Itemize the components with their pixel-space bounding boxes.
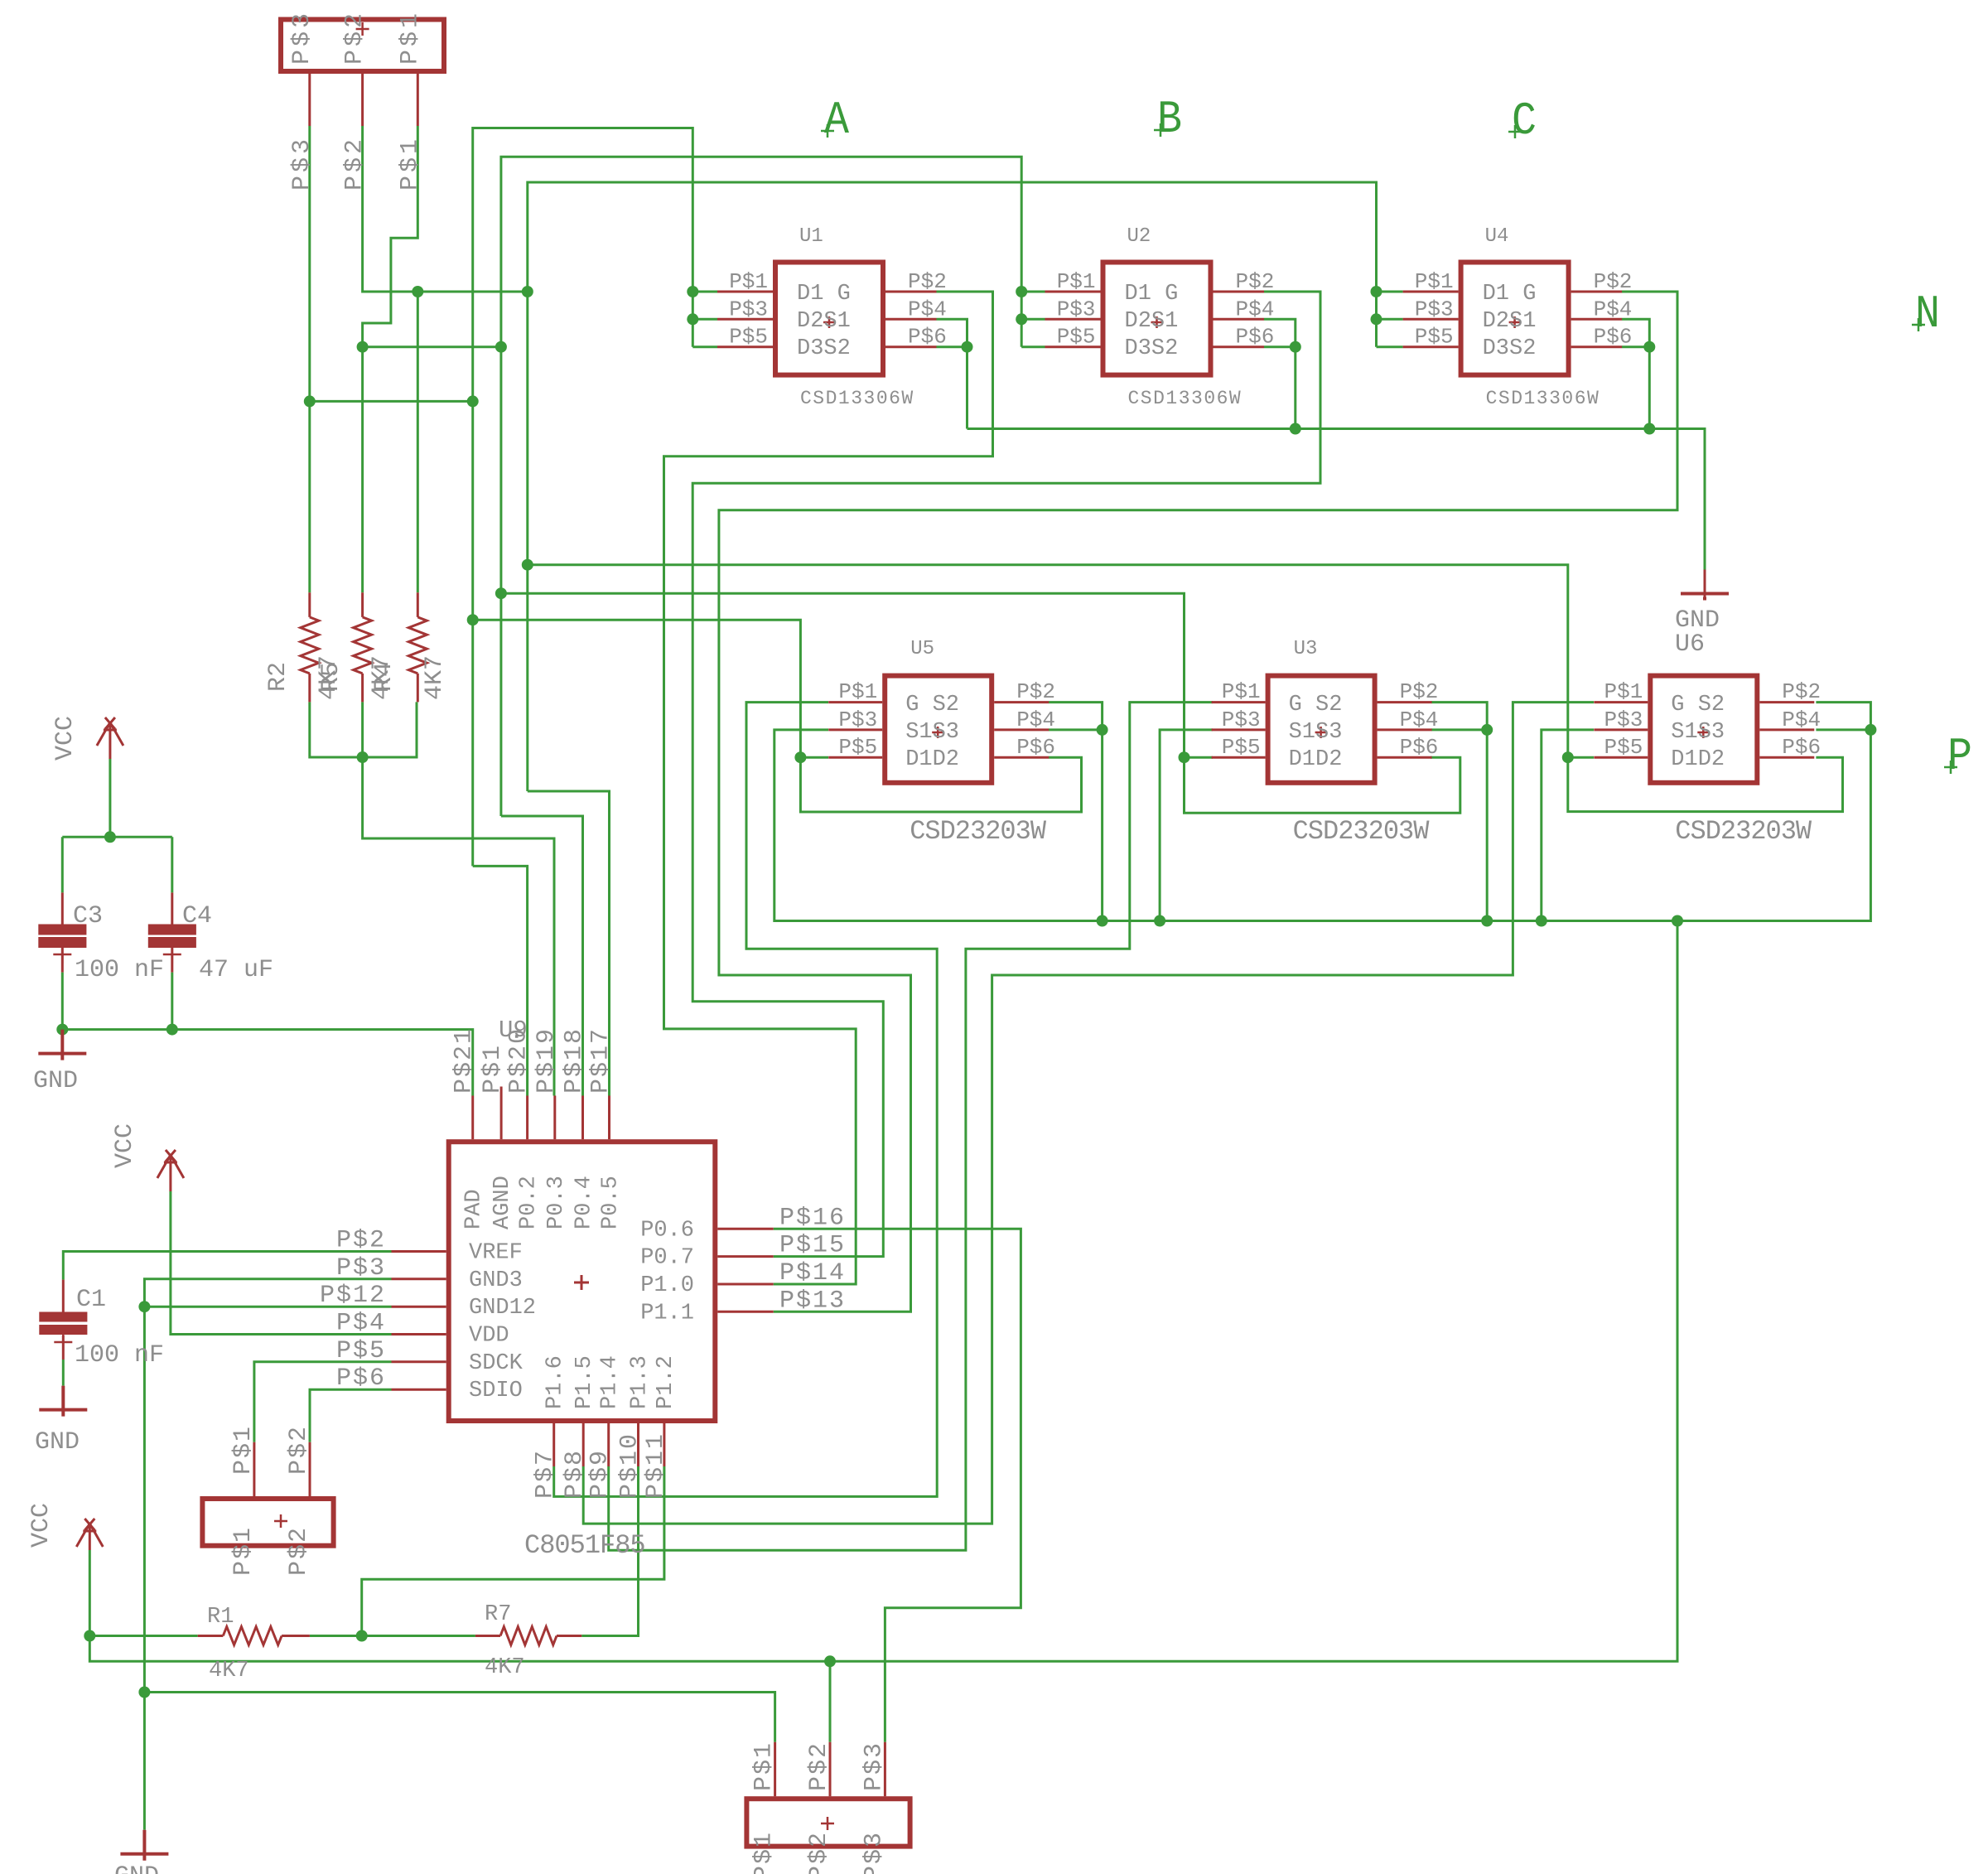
wire net C jog to U9 P$17 xyxy=(528,791,610,1096)
wire GND3 GND12 down xyxy=(144,1279,391,1830)
node xyxy=(1481,724,1493,736)
wire U1 gate to U9 P$14 xyxy=(664,292,993,1284)
node xyxy=(1672,915,1683,927)
svg-text:A: A xyxy=(824,94,849,147)
node xyxy=(794,751,806,763)
wire U7 P$4 link xyxy=(1816,728,1870,731)
node xyxy=(522,559,533,571)
transistor U3 CSD23203W xyxy=(1268,676,1375,783)
node xyxy=(138,1687,150,1698)
ground symbol U6 xyxy=(1704,570,1706,597)
svg-text:VCC: VCC xyxy=(111,1123,139,1168)
node xyxy=(357,751,369,763)
wire net A bus vertical and U1 left xyxy=(473,128,693,867)
power VCC symbol (VCC2 mid-left) xyxy=(157,1150,184,1191)
svg-text:P$14: P$14 xyxy=(779,1259,846,1287)
svg-text:P$1: P$1 xyxy=(750,1831,779,1874)
microcontroller U9 C8051F85 xyxy=(449,1142,716,1421)
power VCC symbol (VCC3 bottom-left) xyxy=(76,1519,103,1550)
transistor U7 CSD23203W xyxy=(1650,676,1757,783)
node xyxy=(1016,286,1027,297)
svg-text:P1.6: P1.6 xyxy=(543,1355,568,1409)
svg-text:P0.3: P0.3 xyxy=(544,1176,569,1229)
svg-text:P1.1: P1.1 xyxy=(640,1301,694,1326)
node xyxy=(56,1024,68,1036)
svg-text:GND: GND xyxy=(114,1862,159,1874)
connector JP1 (3-pin, top) xyxy=(281,20,444,72)
svg-text:P$5: P$5 xyxy=(336,1337,386,1365)
wire U3 S1 to rail xyxy=(1160,730,1213,921)
node xyxy=(687,313,698,325)
wire U4 source pins xyxy=(1622,319,1649,428)
svg-text:P$6: P$6 xyxy=(1594,325,1633,350)
svg-text:P0.7: P0.7 xyxy=(640,1246,694,1271)
wire U5 P$5 link xyxy=(800,756,828,759)
svg-text:CSD13306W: CSD13306W xyxy=(800,388,914,409)
svg-text:4K7: 4K7 xyxy=(421,655,449,700)
node xyxy=(1643,341,1655,353)
svg-text:100 nF: 100 nF xyxy=(75,1341,164,1369)
svg-text:P$1: P$1 xyxy=(479,1044,507,1094)
node xyxy=(495,587,507,599)
node xyxy=(1643,423,1655,435)
wire U7 P$5 link xyxy=(1568,756,1594,759)
svg-text:GND: GND xyxy=(33,1067,78,1095)
svg-text:AGND: AGND xyxy=(490,1176,515,1229)
svg-text:D3S2: D3S2 xyxy=(797,336,851,361)
svg-text:P$8: P$8 xyxy=(561,1449,589,1499)
svg-text:D2S1: D2S1 xyxy=(1483,309,1537,334)
svg-text:P$2: P$2 xyxy=(1236,269,1275,294)
transistor U5 CSD23203W xyxy=(885,676,992,783)
svg-text:P$6: P$6 xyxy=(336,1364,386,1393)
svg-text:CSD23203W: CSD23203W xyxy=(1675,816,1812,847)
svg-text:VCC: VCC xyxy=(27,1503,55,1548)
svg-text:P0.4: P0.4 xyxy=(572,1176,597,1229)
node xyxy=(522,286,533,297)
svg-text:B: B xyxy=(1157,93,1182,146)
wire net A link to bus xyxy=(310,400,473,403)
wire net C branch to U7 drains xyxy=(528,565,1843,812)
svg-text:R4: R4 xyxy=(370,662,398,692)
svg-text:P1.5: P1.5 xyxy=(572,1355,597,1409)
resistor R7 4K7 xyxy=(475,1635,581,1637)
svg-text:N: N xyxy=(1915,287,1940,341)
svg-text:47 uF: 47 uF xyxy=(199,956,273,984)
resistor R2 4K7 xyxy=(308,592,311,702)
node xyxy=(166,1024,178,1036)
wire U5 source pins to rail xyxy=(1049,703,1103,921)
svg-text:P$3: P$3 xyxy=(860,1831,888,1874)
svg-text:VREF: VREF xyxy=(469,1241,523,1266)
svg-text:C1: C1 xyxy=(76,1286,106,1314)
wire VCC to R1 xyxy=(89,1635,197,1637)
node xyxy=(962,341,973,353)
wire VCC to connector P$2 xyxy=(829,1661,832,1742)
svg-text:D3S2: D3S2 xyxy=(1125,336,1179,361)
svg-text:D1 G: D1 G xyxy=(1483,282,1537,307)
svg-text:100 nF: 100 nF xyxy=(75,956,164,984)
svg-text:P$2: P$2 xyxy=(805,1831,833,1874)
wire net B branch to U3 drains xyxy=(501,593,1460,813)
wire SDCK to header xyxy=(254,1362,392,1442)
svg-text:D1D2: D1D2 xyxy=(1671,747,1725,772)
wire source rail to GND U6 xyxy=(967,429,1706,570)
svg-text:P$6: P$6 xyxy=(1782,735,1821,760)
wire U7 S1 to rail xyxy=(1542,730,1594,921)
wire net B jog to U9 P$18 xyxy=(501,816,583,1096)
svg-text:P$3: P$3 xyxy=(288,136,316,191)
resistor R5 4K7 xyxy=(361,592,364,702)
svg-text:R7: R7 xyxy=(485,1602,511,1627)
svg-text:4K7: 4K7 xyxy=(209,1659,249,1683)
resistor R4 4K7 xyxy=(417,592,419,702)
svg-text:P$21: P$21 xyxy=(451,1027,479,1094)
svg-text:P$3: P$3 xyxy=(860,1741,888,1791)
svg-text:P$4: P$4 xyxy=(1016,708,1055,732)
svg-text:P$2: P$2 xyxy=(285,1425,313,1475)
wire R net to U9 P$19 xyxy=(363,757,554,1096)
svg-text:P$9: P$9 xyxy=(586,1449,615,1499)
node xyxy=(1536,915,1547,927)
svg-text:P$5: P$5 xyxy=(1415,325,1454,350)
svg-text:U9: U9 xyxy=(499,1017,528,1044)
wire C3 C4 bottoms GND rail to U9 P$21 xyxy=(62,973,472,1096)
svg-text:VDD: VDD xyxy=(469,1324,509,1349)
wire net C: connector P$2 down and right xyxy=(363,126,528,292)
svg-text:4K7: 4K7 xyxy=(485,1655,525,1680)
wire U2 source pins xyxy=(1264,319,1296,428)
node xyxy=(1371,313,1382,325)
svg-text:P$2: P$2 xyxy=(908,269,947,294)
wire U5 gate to U9 P$7 xyxy=(554,703,937,1497)
node xyxy=(1016,313,1027,325)
svg-text:S1S3: S1S3 xyxy=(905,720,959,745)
svg-text:P0.2: P0.2 xyxy=(517,1176,542,1229)
svg-text:P$5: P$5 xyxy=(1222,735,1261,760)
wire U9 P$16 to connector P$3 xyxy=(774,1229,1021,1742)
svg-text:CSD23203W: CSD23203W xyxy=(910,816,1047,847)
wire U3 gate to U9 P$9 xyxy=(609,703,1213,1551)
svg-text:P$6: P$6 xyxy=(1016,735,1055,760)
node xyxy=(84,1630,95,1642)
svg-text:P: P xyxy=(1947,730,1972,783)
wire U4 gate to U9 P$13 xyxy=(719,292,1677,1311)
wire R7 to U9 P$10 xyxy=(581,1466,638,1636)
wire net B horizontal xyxy=(363,345,501,348)
ground symbol GND under C3 xyxy=(38,1030,86,1060)
svg-text:P$2: P$2 xyxy=(285,1526,313,1576)
svg-text:P$12: P$12 xyxy=(320,1282,386,1310)
svg-text:P$3: P$3 xyxy=(336,1254,386,1282)
wire net B: connector P$1 jog down xyxy=(363,126,418,347)
wire U3 source pins to rail xyxy=(1431,703,1487,921)
svg-text:GND12: GND12 xyxy=(469,1296,536,1321)
node xyxy=(1097,915,1108,927)
svg-text:P$7: P$7 xyxy=(532,1449,560,1499)
svg-text:P$3: P$3 xyxy=(1057,297,1096,321)
node xyxy=(467,614,479,625)
wire VCC rail bottom xyxy=(89,921,1677,1662)
wire VREF to C1 xyxy=(63,1252,391,1280)
wire net A jog to U9 P$20 xyxy=(473,866,528,1095)
wire U7 gate to U9 P$8 xyxy=(583,703,1594,1524)
svg-text:P$4: P$4 xyxy=(1236,297,1275,321)
node xyxy=(1481,915,1493,927)
wire GND to connector P$1 xyxy=(144,1693,774,1742)
svg-text:P1.0: P1.0 xyxy=(640,1273,694,1298)
svg-text:P$4: P$4 xyxy=(908,297,947,321)
svg-text:P$6: P$6 xyxy=(908,325,947,350)
svg-text:U3: U3 xyxy=(1294,638,1318,660)
svg-text:P1.3: P1.3 xyxy=(628,1355,653,1409)
capacitor C4 47 uF xyxy=(171,892,173,925)
svg-text:P$11: P$11 xyxy=(642,1432,670,1499)
svg-text:P$2: P$2 xyxy=(805,1741,833,1791)
svg-text:P$10: P$10 xyxy=(616,1432,644,1499)
svg-text:P$1: P$1 xyxy=(729,269,768,294)
svg-text:D1 G: D1 G xyxy=(1125,282,1179,307)
svg-text:P$3: P$3 xyxy=(1415,297,1454,321)
node xyxy=(412,286,423,297)
svg-text:G S2: G S2 xyxy=(1671,693,1725,717)
wire net A branch to U5 drains xyxy=(473,620,1082,812)
node xyxy=(1179,751,1190,763)
node xyxy=(1562,751,1574,763)
wire SDIO to header xyxy=(310,1389,392,1442)
svg-text:P$3: P$3 xyxy=(1222,708,1261,732)
svg-text:P$15: P$15 xyxy=(779,1232,846,1260)
svg-text:U1: U1 xyxy=(799,225,823,248)
svg-text:P$1: P$1 xyxy=(1222,679,1261,704)
svg-text:P$17: P$17 xyxy=(587,1027,615,1094)
svg-text:P$1: P$1 xyxy=(1415,269,1454,294)
wire U2 gate to U9 P$15 xyxy=(692,292,1320,1257)
transistor U2 CSD13306W xyxy=(1103,263,1211,375)
node xyxy=(1865,724,1876,736)
svg-text:P$2: P$2 xyxy=(1782,679,1821,704)
svg-text:D1D2: D1D2 xyxy=(1289,747,1343,772)
svg-text:S1S3: S1S3 xyxy=(1671,720,1725,745)
svg-text:P$2: P$2 xyxy=(1400,679,1439,704)
wire U3 P$5 link xyxy=(1185,756,1214,759)
wire U1 left pin links xyxy=(692,292,717,347)
svg-text:P1.2: P1.2 xyxy=(654,1355,678,1409)
node xyxy=(138,1301,150,1312)
svg-text:GND3: GND3 xyxy=(469,1268,523,1293)
svg-text:P$2: P$2 xyxy=(1016,679,1055,704)
svg-text:C4: C4 xyxy=(182,902,212,930)
svg-text:D3S2: D3S2 xyxy=(1483,336,1537,361)
power VCC symbol (VCC1 top-left) xyxy=(97,717,123,759)
svg-text:P$2: P$2 xyxy=(336,1227,386,1255)
svg-text:SDIO: SDIO xyxy=(469,1379,523,1403)
svg-text:P1.4: P1.4 xyxy=(598,1355,623,1409)
svg-text:U6: U6 xyxy=(1675,630,1705,659)
node xyxy=(824,1655,836,1667)
svg-text:P$1: P$1 xyxy=(396,136,424,191)
svg-text:P$1: P$1 xyxy=(750,1741,779,1791)
svg-text:P$13: P$13 xyxy=(779,1287,846,1315)
node xyxy=(1097,724,1108,736)
svg-text:R1: R1 xyxy=(207,1605,234,1630)
node xyxy=(104,831,116,843)
wire net C bus vertical and U4 left xyxy=(528,182,1377,791)
node xyxy=(687,286,698,297)
svg-text:P$4: P$4 xyxy=(1782,708,1821,732)
wire resistor bottoms join xyxy=(310,702,417,757)
wire net B bus vertical and U2 left xyxy=(501,157,1021,816)
svg-text:P$1: P$1 xyxy=(229,1425,258,1475)
transistor U1 CSD13306W xyxy=(775,263,883,375)
svg-text:P$6: P$6 xyxy=(1236,325,1275,350)
wire net C to R4 top xyxy=(417,292,419,592)
connector JP3 (3-pin, bottom) xyxy=(746,1799,910,1846)
svg-text:P$1: P$1 xyxy=(396,10,424,65)
svg-text:P$2: P$2 xyxy=(341,136,369,191)
svg-text:P$4: P$4 xyxy=(1594,297,1633,321)
node xyxy=(1371,286,1382,297)
svg-text:P$18: P$18 xyxy=(561,1027,589,1094)
node xyxy=(357,341,369,353)
wire net A: connector P$3 down to R2 xyxy=(308,126,311,592)
svg-text:P$3: P$3 xyxy=(288,10,316,65)
svg-text:P$3: P$3 xyxy=(729,297,768,321)
node xyxy=(495,341,507,353)
svg-text:D2S1: D2S1 xyxy=(797,309,851,334)
svg-text:CSD13306W: CSD13306W xyxy=(1128,388,1242,409)
svg-text:P$4: P$4 xyxy=(336,1310,386,1338)
svg-text:R2: R2 xyxy=(264,662,292,692)
svg-text:P0.5: P0.5 xyxy=(599,1176,624,1229)
svg-text:P$5: P$5 xyxy=(1057,325,1096,350)
wire R junction to U9 P$11 xyxy=(362,1466,664,1636)
svg-text:P0.6: P0.6 xyxy=(640,1218,694,1243)
wire shunt rail S1 xyxy=(774,703,1871,921)
svg-text:P$5: P$5 xyxy=(1604,735,1643,760)
node xyxy=(304,395,316,407)
wire U4 left pin links xyxy=(1377,292,1403,347)
svg-text:C3: C3 xyxy=(73,902,103,930)
svg-text:U4: U4 xyxy=(1485,225,1509,248)
svg-text:P$2: P$2 xyxy=(1594,269,1633,294)
svg-text:G S2: G S2 xyxy=(1289,693,1343,717)
svg-text:P$6: P$6 xyxy=(1400,735,1439,760)
svg-text:P$5: P$5 xyxy=(838,735,877,760)
wire R1 to R7 xyxy=(310,1635,475,1637)
svg-text:P$19: P$19 xyxy=(533,1027,561,1094)
svg-text:S1S3: S1S3 xyxy=(1289,720,1343,745)
wire VCC to C3 C4 tops xyxy=(62,759,172,892)
connector JP2 (2-pin programming header) xyxy=(202,1499,333,1546)
svg-text:CSD23203W: CSD23203W xyxy=(1293,816,1431,847)
svg-text:VCC: VCC xyxy=(51,716,80,761)
svg-text:P$4: P$4 xyxy=(1400,708,1439,732)
svg-text:CSD13306W: CSD13306W xyxy=(1486,388,1600,409)
node xyxy=(356,1630,368,1642)
svg-text:P$1: P$1 xyxy=(1057,269,1096,294)
svg-text:P$1: P$1 xyxy=(1604,679,1643,704)
capacitor C1 100 nF xyxy=(62,1280,65,1313)
svg-text:D1D2: D1D2 xyxy=(905,747,959,772)
svg-text:D1 G: D1 G xyxy=(797,282,851,307)
svg-text:U2: U2 xyxy=(1127,225,1151,248)
wire C1 bottom to GND xyxy=(62,1360,65,1386)
svg-text:P$1: P$1 xyxy=(229,1526,258,1576)
capacitor C3 100 nF xyxy=(61,892,64,925)
svg-text:PAD: PAD xyxy=(462,1189,487,1229)
transistor U4 CSD13306W xyxy=(1461,263,1569,375)
resistor R1 4K7 xyxy=(198,1635,310,1637)
svg-text:D2S1: D2S1 xyxy=(1125,309,1179,334)
svg-text:GND: GND xyxy=(35,1428,80,1456)
wire U1 source pins xyxy=(937,319,967,428)
svg-text:P$5: P$5 xyxy=(729,325,768,350)
svg-text:P$1: P$1 xyxy=(838,679,877,704)
ground symbol GND bottom left xyxy=(120,1830,168,1861)
wire net B to R5 top xyxy=(361,347,364,593)
svg-text:P$3: P$3 xyxy=(838,708,877,732)
svg-text:C8051F85: C8051F85 xyxy=(524,1530,645,1561)
node xyxy=(1290,423,1301,435)
wire VDD to VCC xyxy=(171,1191,392,1335)
ground symbol GND under C1 xyxy=(39,1386,87,1417)
svg-text:P$2: P$2 xyxy=(341,10,369,65)
svg-text:SDCK: SDCK xyxy=(469,1351,524,1376)
wire U2 left pin links xyxy=(1021,292,1045,347)
svg-text:P$16: P$16 xyxy=(779,1204,846,1232)
svg-text:G S2: G S2 xyxy=(905,693,959,717)
svg-text:U5: U5 xyxy=(910,638,934,660)
node xyxy=(467,395,479,407)
node xyxy=(1154,915,1165,927)
svg-text:P$3: P$3 xyxy=(1604,708,1643,732)
node xyxy=(1290,341,1301,353)
svg-text:C: C xyxy=(1512,94,1537,147)
svg-text:R5: R5 xyxy=(317,662,345,692)
